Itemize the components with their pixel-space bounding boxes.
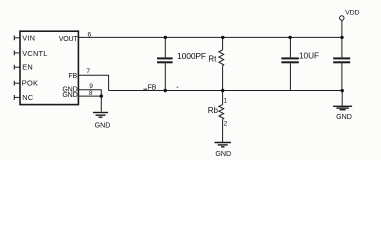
svg-text:6: 6: [87, 32, 91, 39]
svg-text:9: 9: [89, 83, 93, 90]
svg-text:1000PF: 1000PF: [177, 51, 206, 61]
svg-text:GND: GND: [336, 113, 352, 121]
svg-text:GND: GND: [215, 150, 231, 158]
svg-text:GND: GND: [95, 122, 111, 130]
svg-text:VDD: VDD: [345, 9, 359, 16]
svg-text:GND: GND: [62, 91, 77, 99]
svg-text:1: 1: [223, 97, 227, 104]
svg-text:Rb: Rb: [208, 106, 219, 115]
svg-text:NC: NC: [22, 93, 34, 102]
svg-text:EN: EN: [22, 63, 33, 72]
svg-text:8: 8: [89, 90, 93, 97]
svg-text:FB: FB: [148, 84, 157, 91]
svg-text:Rt: Rt: [208, 55, 217, 64]
svg-text:POK: POK: [22, 79, 38, 88]
svg-text:VIN: VIN: [22, 33, 35, 42]
svg-text:VOUT: VOUT: [59, 35, 79, 43]
svg-text:VCNTL: VCNTL: [22, 49, 47, 58]
svg-text:7: 7: [86, 68, 90, 75]
svg-text:10UF: 10UF: [299, 52, 319, 61]
svg-text:2: 2: [224, 120, 228, 127]
svg-text:FB: FB: [68, 72, 77, 80]
